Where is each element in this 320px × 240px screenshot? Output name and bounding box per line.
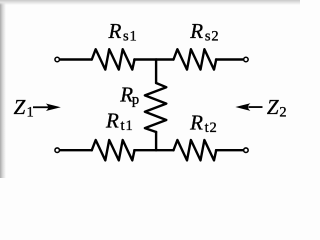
terminal top-left [55,57,60,62]
wire vertical bottom lead [155,132,157,150]
resistor Rt1 [92,140,135,160]
wire top-left lead [60,58,92,60]
resistor Rp [145,83,166,132]
terminal bottom-left [55,148,60,153]
left edge shading [0,0,6,178]
arrow Z1 (points right) [33,103,61,111]
wire bottom-right lead [216,149,243,151]
terminal top-right [244,57,249,62]
terminal bottom-right [244,148,249,153]
resistor Rs2 [174,49,217,69]
arrow Z2 (points left) [235,103,262,111]
resistor Rt2 [174,140,217,160]
wire vertical top lead [155,60,157,84]
wire bottom-middle [134,149,173,151]
wire bottom-left lead [60,149,92,151]
wire top-right lead [216,58,243,60]
top edge shading [0,0,300,5]
resistor Rs1 [92,49,135,69]
wire top-middle [134,58,173,60]
